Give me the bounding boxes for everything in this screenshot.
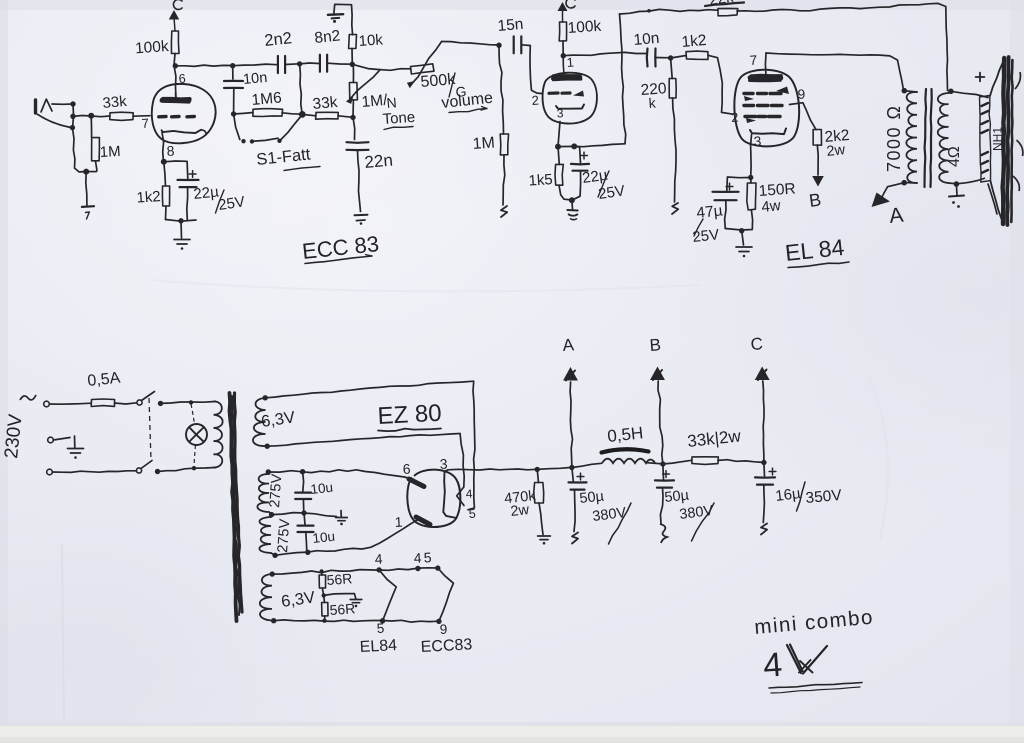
- label + (speaker): [976, 73, 985, 82]
- node cathode ground junction: [178, 218, 183, 223]
- node V1b cathode junction: [555, 143, 577, 149]
- label 8n2: [314, 27, 342, 47]
- riser C: [763, 381, 764, 463]
- pin label 9 (EL84 screen): [797, 87, 806, 102]
- label C (V1a supply): [173, 0, 182, 9]
- label 1K2: [136, 188, 161, 207]
- wire plate node to 10n coupling: [563, 52, 647, 55]
- svg-text:EZ 80: EZ 80: [377, 400, 442, 430]
- pin label 6 (EZ80): [402, 461, 411, 477]
- wire switch to PT top: [161, 402, 216, 404]
- node heater pin 5 (EL84): [380, 618, 385, 623]
- wire heater zigzag ECC83: [438, 568, 454, 621]
- svg-text:8n2: 8n2: [314, 27, 342, 47]
- resistor 1M (V1b grid leak): [500, 134, 508, 155]
- label pin 5 (EL84 heater): [376, 621, 384, 636]
- wire bleeder to earth: [539, 503, 543, 535]
- wire 2n2 to mid node: [285, 63, 299, 66]
- arrow B (rail): [651, 368, 664, 381]
- resistor 150R (EL84 cathode): [747, 183, 756, 210]
- tube V1a ECC83 triode (left half): [152, 84, 216, 143]
- label 1K2 (EL84): [681, 32, 707, 51]
- label 25V (EL84): [692, 219, 720, 246]
- node input ground junction: [83, 169, 89, 175]
- wire NFB to cathode: [574, 144, 625, 147]
- resistor 56R (upper humdinger): [319, 572, 326, 589]
- label 230V~: [1, 395, 36, 460]
- supply arrow C (V1b plate): [558, 3, 566, 22]
- svg-text:16µ: 16µ: [774, 485, 802, 505]
- wire mains N to switch: [52, 471, 136, 473]
- underline (title): [769, 683, 862, 694]
- capacitor 10n (tone): [224, 81, 243, 88]
- svg-text:350V: 350V: [805, 487, 843, 507]
- wire to 10µ upper: [303, 472, 304, 492]
- wire 15n node down to 1M: [499, 45, 504, 134]
- label 275V (upper): [267, 473, 285, 508]
- label 50µ (A): [579, 488, 606, 507]
- wire secondary to ground: [955, 184, 958, 196]
- wire heater zigzag EL84: [379, 570, 396, 621]
- label 22K (feedback): [705, 0, 744, 9]
- label 2K2: [824, 127, 850, 146]
- svg-text:5: 5: [423, 549, 432, 565]
- label 275V (lower): [275, 518, 293, 553]
- label 380V (A): [592, 503, 631, 544]
- resistor 10K (to ground top): [349, 35, 357, 49]
- core OT: [925, 89, 932, 187]
- wire heater top to EZ80 pin5: [265, 381, 475, 510]
- arrow C (rail): [756, 368, 769, 381]
- wire to input earth: [86, 172, 87, 206]
- wire 10K up: [351, 49, 353, 65]
- svg-text:33k: 33k: [312, 94, 339, 113]
- wire node to 1M6: [234, 113, 253, 115]
- label B: [808, 189, 823, 210]
- label 1M (V1b): [472, 134, 495, 153]
- wire mid node to 8n2: [300, 62, 319, 65]
- wire tone input down to 10n: [232, 66, 234, 79]
- label 10K: [358, 31, 384, 50]
- wire CT to snubber node: [272, 513, 304, 515]
- node 56R centre: [322, 593, 326, 597]
- wire cathode to 1K5: [558, 147, 559, 165]
- pin label 4 (EZ80): [465, 487, 473, 501]
- wire to 1M grid leak: [90, 116, 92, 138]
- node 1M6 left: [231, 111, 236, 116]
- wire mains L to fuse: [49, 403, 91, 404]
- label 10µ (upper): [310, 480, 334, 497]
- svg-text:Tone: Tone: [382, 109, 416, 128]
- svg-text:NH1: NH1: [991, 127, 1005, 151]
- svg-text:10u: 10u: [312, 529, 336, 546]
- wire OT primary bottom to A arrow: [884, 183, 904, 193]
- winding OT secondary: [938, 91, 957, 184]
- label 10µ (lower): [312, 529, 336, 546]
- label minicombo: [753, 606, 874, 639]
- label 33K|2W: [686, 426, 742, 451]
- wire top to 2n2: [233, 64, 277, 66]
- node OT primary bottom: [901, 180, 907, 186]
- riser B: [658, 381, 663, 464]
- lamp (pilot light): [186, 404, 207, 467]
- label 2W (bleeder): [510, 502, 531, 520]
- node reservoir A: [569, 465, 574, 470]
- label 100k (V1b): [567, 18, 602, 37]
- node 275V centre tap: [269, 512, 274, 517]
- svg-text:100k: 100k: [135, 38, 170, 57]
- label 380V (B): [679, 503, 715, 541]
- wire V1a plate node: [174, 54, 176, 99]
- pin label 7 (EL84 plate): [749, 53, 758, 68]
- pin label 2 (V1b grid): [531, 93, 539, 108]
- resistor 1K2 (EL84 grid stopper): [686, 51, 708, 59]
- label 470K: [503, 488, 537, 507]
- node 1M top: [88, 113, 94, 119]
- wire 15n to V1b grid: [521, 45, 542, 94]
- svg-text:7000 Ω: 7000 Ω: [884, 105, 904, 173]
- label 33K (input): [102, 93, 128, 112]
- wire 47µ bottom: [725, 201, 726, 229]
- node 6,3V bot top terminal: [270, 571, 275, 576]
- wire 56R low to bus: [324, 616, 326, 621]
- switch S1-Fatt: [241, 115, 302, 144]
- fuse 0,5A: [91, 399, 114, 407]
- node V1b cathode ground: [569, 197, 575, 203]
- label 6,3V (bottom): [280, 588, 316, 611]
- winding 275V (lower): [259, 516, 275, 556]
- svg-text:8: 8: [166, 142, 175, 159]
- svg-text:10n: 10n: [242, 70, 268, 88]
- resistor 1M (input grid leak): [92, 138, 100, 161]
- label 25V (V1b): [597, 171, 626, 203]
- wire 1K2 to EL84 grid pin 2: [708, 55, 733, 114]
- node snubber centre: [301, 510, 306, 515]
- wire 1M to squiggle ground: [503, 155, 505, 205]
- svg-text:1M: 1M: [99, 143, 121, 161]
- node 1M6 right (big blob): [299, 111, 306, 118]
- label EL84: [784, 234, 849, 268]
- terminal mains L: [44, 401, 50, 407]
- ground squiggle (220K): [672, 203, 678, 214]
- label pin 4 (heaters): [374, 551, 383, 567]
- wire rail to A node: [537, 467, 572, 469]
- label C (rail): [750, 334, 764, 354]
- earth symbol (bleeder): [538, 536, 551, 545]
- tube V3 EZ80 rectifier: [407, 470, 460, 527]
- label 350V (C): [797, 482, 844, 511]
- label Tone: [382, 109, 416, 130]
- node lamp top: [189, 400, 193, 404]
- resistor 470K/2W (bleeder): [534, 483, 544, 504]
- svg-text:7: 7: [141, 116, 149, 131]
- capacitor 15n (coupling): [514, 36, 522, 53]
- ground (EL84 cathode): [736, 247, 752, 257]
- wire 33K to C node: [718, 460, 764, 463]
- svg-text:22n: 22n: [364, 151, 394, 172]
- svg-text:4: 4: [465, 487, 473, 501]
- svg-text:4: 4: [374, 551, 383, 567]
- ground (V1b cathode): [567, 210, 578, 220]
- wire HV bottom to pin 1: [275, 519, 419, 555]
- node EL84 cathode junction: [748, 175, 753, 180]
- svg-text:2w: 2w: [826, 142, 847, 160]
- svg-text:22µ: 22µ: [193, 183, 220, 203]
- wire 22µ bottom (V1b): [572, 171, 581, 201]
- earth symbol (CT): [336, 518, 348, 526]
- wire S1 left leg: [234, 114, 240, 140]
- pin label 8 (V1a cathode): [166, 142, 175, 159]
- wiper arrow (volume pot): [407, 42, 442, 89]
- svg-text:100k: 100k: [567, 18, 602, 37]
- node heater pins 45: [415, 565, 440, 571]
- label 56R (upper): [326, 570, 353, 588]
- wire switch to PT bottom: [158, 468, 216, 472]
- wire EL84 cathode bottom bus: [725, 210, 752, 230]
- label 100K: [135, 38, 170, 57]
- svg-text:5: 5: [376, 621, 384, 636]
- ground (OT secondary): [949, 196, 964, 208]
- resistor R1 100K (V1a plate load): [171, 31, 179, 54]
- label 0,5A: [87, 370, 122, 390]
- ground squiggle (cap B): [660, 524, 667, 543]
- pin label 6 (V1a): [178, 72, 186, 86]
- svg-text:B: B: [649, 335, 662, 355]
- label 10n (tone): [242, 70, 268, 88]
- capacitor 10µ (upper snubber): [295, 493, 311, 499]
- label 6,3V (top): [260, 408, 296, 431]
- switch pole 2: [136, 461, 152, 474]
- wire 33K to bottom node: [338, 116, 353, 118]
- wire cathode bottom bus: [166, 220, 197, 222]
- svg-text:5: 5: [468, 507, 476, 521]
- capacitor 10µ (lower snubber): [298, 513, 314, 552]
- wire to ground (EL84): [742, 231, 744, 245]
- label 220K: [640, 80, 667, 111]
- wire EL84 plate to OT: [766, 53, 904, 90]
- node switch out bottom: [155, 469, 160, 474]
- node 6,3V bot bottom terminal: [271, 618, 276, 623]
- label 4W (title): [762, 645, 827, 685]
- wire to ground (V1a cathode): [180, 221, 183, 238]
- pin 4 bracket (EZ80): [457, 487, 464, 506]
- label 16µ (C): [774, 485, 802, 505]
- wire choke to B node: [647, 463, 663, 464]
- svg-text:1k2: 1k2: [681, 32, 707, 51]
- wiper arrow (tone pot): [346, 70, 380, 104]
- riser A: [570, 382, 572, 468]
- capacitor 22µ/25V (V1a cathode bypass): [178, 171, 199, 188]
- node 6,3V bottom terminal: [265, 444, 270, 449]
- wire tone to volume pot: [352, 64, 411, 70]
- svg-text:1M6: 1M6: [251, 89, 283, 109]
- svg-text:25V: 25V: [692, 226, 720, 246]
- svg-text:3: 3: [753, 134, 761, 149]
- speaker LS1: [980, 57, 1023, 225]
- node OT primary top: [902, 88, 908, 94]
- wire 1M6 right to 33K: [302, 114, 316, 115]
- resistor 56R (lower humdinger): [322, 595, 328, 616]
- core PT (heavy): [230, 393, 243, 621]
- svg-text:7: 7: [749, 53, 758, 68]
- ground (22n): [355, 215, 368, 225]
- resistor 1K2 (V1a cathode): [162, 186, 169, 206]
- wire 10n to 1M6 node: [233, 88, 235, 114]
- resistor 1M6 (tone): [253, 109, 283, 117]
- resistor 1K5 (V1b cathode): [555, 164, 563, 185]
- svg-text:0,5A: 0,5A: [87, 370, 122, 390]
- label 0,5H: [606, 423, 644, 446]
- capacitor 10n (coupling to EL84): [647, 49, 656, 67]
- svg-text:56R: 56R: [329, 600, 356, 618]
- label C (V1b supply): [566, 0, 575, 8]
- choke 0,5H: [602, 449, 656, 463]
- wire cathode to bypass cap: [164, 161, 188, 179]
- svg-text:10u: 10u: [310, 480, 334, 497]
- svg-text:4Ω: 4Ω: [946, 146, 963, 167]
- tube V1b ECC83 triode (right half): [543, 56, 597, 124]
- svg-text:ECC83: ECC83: [420, 636, 472, 656]
- svg-text:EL84: EL84: [359, 637, 397, 656]
- svg-text:33k: 33k: [102, 93, 128, 112]
- node volume/15n junction: [496, 43, 501, 48]
- wire 220K down long: [673, 98, 676, 202]
- label 1M6: [251, 89, 283, 109]
- node reservoir B: [660, 461, 665, 466]
- svg-text:275V: 275V: [267, 473, 285, 508]
- wire cathode to 22µ cap (V1b): [574, 146, 580, 163]
- svg-text:6: 6: [402, 461, 411, 477]
- svg-text:22µ: 22µ: [581, 167, 609, 187]
- label 500k/G: [420, 71, 467, 100]
- pin label 1 (EZ80): [394, 514, 403, 530]
- node OT secondary bottom: [954, 181, 960, 187]
- label ECC83 (stage): [301, 231, 380, 264]
- resistor 33K/2W (dropper): [692, 457, 718, 465]
- pin label 7 (V1a grid): [141, 116, 149, 131]
- label 22µ (V1a): [193, 183, 220, 203]
- label 2n2: [264, 29, 293, 50]
- label 50µ (B): [664, 487, 691, 506]
- wire NFB top run: [620, 9, 718, 14]
- resistor 33K (grid stopper V1a): [110, 112, 133, 120]
- label 47µ: [696, 202, 724, 222]
- wire 470K down: [537, 469, 538, 482]
- supply arrow C (V1a plate): [170, 11, 179, 31]
- pin label 3 (EL84 cathode): [753, 134, 761, 149]
- wire 100K to plate node: [562, 41, 564, 55]
- winding OT primary: [904, 91, 917, 183]
- wire cathode node pair: [558, 145, 574, 147]
- wire V1b cathode: [558, 122, 560, 147]
- ground (input 1M): [82, 206, 94, 219]
- earth symbol (humdinger): [350, 600, 362, 608]
- wire V1a cathode: [162, 132, 164, 162]
- label 4W: [761, 197, 782, 216]
- node heater pin 9 (ECC83): [436, 619, 441, 624]
- svg-text:47µ: 47µ: [696, 202, 724, 222]
- wire plate node to tone stack: [175, 65, 232, 66]
- capacitor 47µ/25V (EL84 bypass): [713, 183, 739, 200]
- node 2n2/8n2 junction: [297, 61, 302, 66]
- ground (V1a cathode): [174, 240, 190, 250]
- arrow A (rail): [564, 368, 577, 381]
- wire jack sleeve down: [72, 128, 86, 172]
- svg-text:1M: 1M: [472, 134, 495, 153]
- wire heater bottom to EZ80 pin4: [267, 434, 464, 488]
- wire EL84 cathode: [750, 135, 753, 177]
- wire HV top to pin 6: [268, 470, 414, 480]
- wire 10K to top ground: [334, 4, 353, 35]
- switch pole 1: [137, 392, 155, 406]
- wire 10n to grid node: [656, 57, 671, 59]
- node tone stack input: [230, 63, 235, 68]
- node OT secondary top: [948, 89, 954, 95]
- node 470K tap: [535, 467, 540, 472]
- wire rail A to choke: [572, 463, 602, 467]
- wire grid node to 1K2: [671, 56, 686, 59]
- wire 1K5 to bottom node: [559, 185, 572, 200]
- svg-text:1k5: 1k5: [528, 171, 553, 190]
- label EL84 (heater): [359, 637, 397, 656]
- label A (OT): [888, 204, 904, 228]
- label 7000 Ohm: [884, 105, 904, 173]
- label 150R: [758, 180, 796, 200]
- capacitor 50µ/380V (B): [655, 464, 674, 524]
- label pins 45 (heaters): [413, 549, 432, 566]
- label volume: [441, 90, 494, 113]
- label 56R (lower): [329, 600, 356, 618]
- svg-text:9: 9: [797, 87, 806, 102]
- node V1b plate junction: [561, 53, 566, 58]
- pot 1M/N (tone): [349, 64, 357, 117]
- wire to ground (V1b cathode): [571, 200, 574, 209]
- label 22n: [364, 151, 394, 172]
- label 33K (tone): [312, 94, 339, 113]
- svg-text:0,5H: 0,5H: [606, 423, 644, 446]
- label 2W: [826, 142, 847, 160]
- ground squiggle (1M V1b): [501, 206, 507, 217]
- label 4 Ohm (secondary): [946, 146, 963, 167]
- pin label 3 (V1b cathode): [556, 106, 564, 120]
- pin label 2 (EL84 grid): [731, 110, 739, 125]
- node 6,3V top terminal: [263, 395, 268, 400]
- wire EL84 screen pin 9: [790, 103, 817, 130]
- wire snubber node to earth: [304, 511, 341, 518]
- label B (rail): [649, 335, 662, 355]
- wire fuse to switch: [115, 403, 137, 404]
- capacitor 16µ/350V (C): [755, 463, 776, 523]
- label 22µ (V1b): [581, 167, 609, 187]
- wire wiper to 15n node: [442, 42, 499, 46]
- svg-text:4w: 4w: [761, 197, 782, 216]
- wire 1M6 to right node: [282, 113, 302, 114]
- node reservoir C: [761, 460, 766, 465]
- wire mid node down to 1M6 right: [300, 64, 303, 115]
- svg-text:10k: 10k: [358, 31, 384, 50]
- capacitor 2n2 (tone): [278, 56, 285, 73]
- node HV bottom junction: [305, 550, 310, 555]
- node 10µ upper tap: [300, 469, 305, 474]
- wire speaker lower to secondary: [957, 178, 985, 184]
- svg-text:3: 3: [556, 106, 564, 120]
- resistor 33K (tone): [316, 112, 339, 119]
- input jack J1: [36, 99, 76, 130]
- resistor 22K (feedback): [718, 8, 738, 15]
- node 56R top: [319, 569, 323, 573]
- label 1K5: [528, 171, 553, 190]
- wire input to grid resistor: [73, 116, 110, 117]
